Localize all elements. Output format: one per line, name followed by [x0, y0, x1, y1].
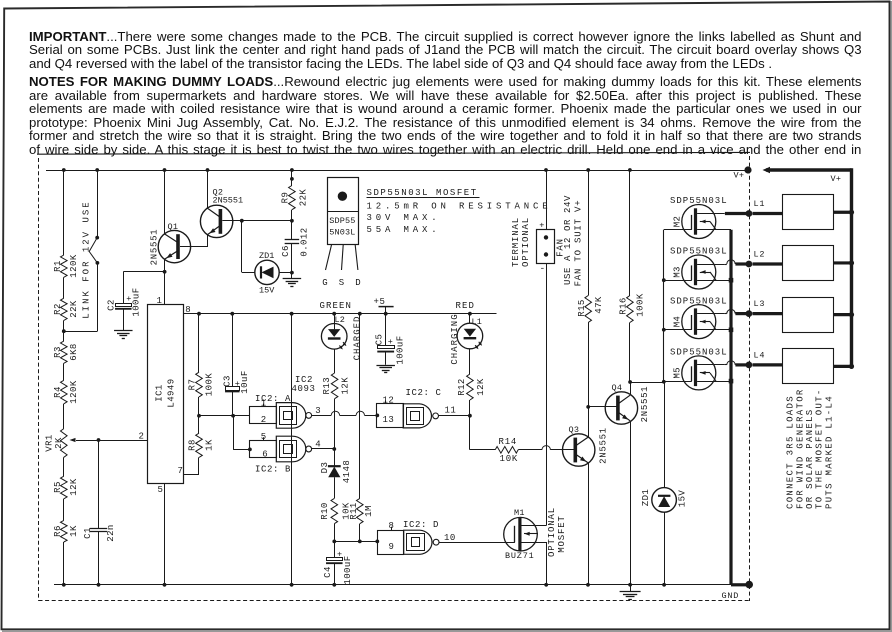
svg-text:R5: R5	[53, 481, 63, 493]
svg-text:1M: 1M	[364, 505, 374, 517]
resistor R16 100K	[627, 296, 634, 323]
wire ZD1 cathode	[279, 272, 292, 274]
wire IC1 pin 5 to ground rail	[164, 483, 166, 585]
wire C2 to ground	[123, 309, 125, 331]
wire VR1-R5	[63, 457, 65, 476]
svg-text:100K: 100K	[636, 293, 646, 317]
svg-text:IC2: D: IC2: D	[403, 520, 439, 530]
svg-text:10K: 10K	[342, 502, 352, 520]
wire R12 to pin11 node	[469, 400, 471, 416]
svg-text:M3: M3	[672, 266, 682, 277]
wire M4 drain to load tap	[727, 309, 735, 313]
svg-text:R2: R2	[53, 303, 63, 315]
wire C5 to ground	[385, 352, 387, 365]
wire C3 top	[232, 314, 234, 387]
svg-text:R10: R10	[320, 502, 330, 520]
svg-text:CHARGING: CHARGING	[450, 313, 460, 364]
svg-text:C3: C3	[223, 375, 233, 387]
page shadow bottom	[2, 630, 892, 632]
wire link top	[97, 170, 99, 238]
svg-text:+5: +5	[374, 297, 386, 307]
wire R11 bottom	[359, 524, 361, 542]
svg-text:PUTS MARKED L1-L4: PUTS MARKED L1-L4	[824, 395, 834, 509]
svg-text:FAN TO SUIT V+: FAN TO SUIT V+	[574, 200, 584, 287]
svg-text:R12: R12	[457, 378, 467, 396]
wire R16 top	[629, 170, 631, 296]
zener diode ZD1 15V	[255, 260, 279, 284]
svg-text:R14: R14	[499, 437, 518, 447]
svg-text:12: 12	[383, 396, 395, 406]
wire R4-VR1	[63, 404, 65, 429]
svg-text:L2: L2	[335, 315, 346, 325]
svg-text:2N5551: 2N5551	[599, 427, 609, 464]
svg-text:TERMINAL: TERMINAL	[511, 217, 521, 267]
svg-text:+: +	[388, 337, 393, 347]
svg-text:L3: L3	[754, 299, 766, 309]
svg-text:2N5551: 2N5551	[213, 196, 244, 206]
svg-text:TO THE MOSFET OUT-: TO THE MOSFET OUT-	[815, 388, 825, 509]
transistor M2 SDP55N03L	[682, 205, 716, 239]
wire R11 top	[359, 314, 361, 499]
svg-text:12K: 12K	[341, 377, 351, 395]
capacitor C5 100uF	[378, 346, 395, 349]
svg-text:Q1: Q1	[168, 222, 179, 232]
svg-text:IC1: IC1	[155, 384, 165, 402]
svg-text:3: 3	[315, 406, 321, 416]
svg-text:GREEN: GREEN	[320, 301, 353, 311]
gate IC2: A	[250, 407, 277, 424]
wire C3 bottom	[232, 391, 234, 415]
node GND	[745, 581, 753, 589]
svg-text:M2: M2	[672, 216, 682, 227]
capacitor C4 100uF	[327, 558, 343, 561]
page shadow right	[891, 1, 892, 632]
svg-text:1: 1	[157, 296, 163, 306]
svg-text:D: D	[355, 278, 361, 288]
svg-text:2K: 2K	[54, 437, 64, 449]
capacitor C1	[90, 528, 108, 530]
svg-text:13: 13	[383, 415, 395, 425]
svg-text:120K: 120K	[69, 380, 79, 404]
transistor M1 BUZ71 optional mosfet	[504, 517, 538, 551]
svg-text:22K: 22K	[299, 189, 309, 207]
wire Q3 base	[551, 449, 575, 451]
resistor R4	[61, 380, 68, 404]
svg-text:12.5mR ON RESISTANCE: 12.5mR ON RESISTANCE	[367, 202, 552, 212]
resistor R14 10K	[495, 447, 518, 454]
svg-text:4093: 4093	[292, 384, 316, 394]
svg-text:L4: L4	[754, 350, 766, 360]
svg-text:1K: 1K	[205, 439, 215, 451]
svg-text:R4: R4	[53, 386, 63, 398]
wire gate bus	[663, 230, 665, 381]
gate IC2: C	[377, 404, 404, 428]
wire Q3 emitter to ground rail	[588, 463, 590, 585]
svg-text:SDP55N03L: SDP55N03L	[670, 348, 728, 358]
wire LED L2 cathode to R13	[334, 349, 336, 373]
wire LED L1 anode	[469, 314, 471, 324]
wire M1 source to ground rail	[546, 542, 548, 585]
wire IC2:C pin11 output	[439, 415, 470, 417]
svg-text:FOR WIND GENERATOR: FOR WIND GENERATOR	[795, 388, 805, 509]
svg-text:5: 5	[158, 485, 164, 495]
svg-text:C2: C2	[107, 299, 117, 311]
op-amp IC1 L4949 body	[148, 305, 184, 484]
svg-text:10uF: 10uF	[240, 370, 250, 393]
svg-text:V+: V+	[831, 174, 842, 184]
wire source bus to GND terminal	[731, 583, 746, 586]
resistor R2	[61, 298, 68, 320]
svg-text:D3: D3	[320, 462, 330, 474]
wire Q2 base	[222, 220, 292, 222]
svg-text:L2: L2	[754, 249, 766, 259]
wire M4 gate	[664, 329, 692, 331]
capacitor C6	[285, 239, 300, 241]
svg-text:G: G	[322, 278, 328, 288]
svg-text:IC2: B: IC2: B	[255, 465, 291, 475]
svg-text:L1: L1	[472, 317, 483, 327]
svg-text:30V MAX.: 30V MAX.	[367, 213, 441, 223]
wire R10 to IC2:D input node	[334, 524, 336, 542]
svg-text:55A MAX.: 55A MAX.	[367, 225, 441, 235]
wire C1 to ground rail	[98, 532, 100, 585]
wire Q1 collector	[164, 170, 166, 234]
schematic dashed border bottom	[39, 600, 750, 602]
svg-text:R13: R13	[322, 377, 332, 395]
terminal FAN optional	[537, 230, 555, 264]
potentiometer VR1	[61, 429, 68, 458]
wire link bottom	[97, 263, 99, 331]
svg-text:USE A 12 OR 24V: USE A 12 OR 24V	[563, 195, 573, 285]
wire R1-R2	[63, 277, 65, 298]
wire R15 to Q3 collector node	[588, 323, 590, 407]
wire ZD1 bottom to ground rail	[664, 512, 666, 585]
wire source bus thick	[729, 230, 732, 585]
wire R2-R3 junction	[63, 320, 65, 341]
svg-text:7: 7	[178, 466, 184, 476]
svg-text:R6: R6	[53, 525, 63, 537]
wire R15 top	[588, 170, 590, 296]
svg-text:12K: 12K	[69, 478, 79, 496]
wire Q1 emitter	[164, 259, 166, 272]
svg-text:R15: R15	[577, 299, 587, 317]
svg-text:22K: 22K	[69, 300, 79, 318]
wire Q4 collector	[630, 382, 632, 395]
wire LED L1 cathode to R12	[469, 349, 471, 374]
svg-text:VR1: VR1	[45, 434, 55, 452]
svg-text:C4: C4	[323, 566, 333, 578]
svg-text:CHARGED: CHARGED	[353, 316, 363, 361]
svg-text:SDP55: SDP55	[329, 216, 355, 226]
svg-text:47K: 47K	[594, 296, 604, 314]
load L3 dummy load box	[753, 312, 783, 315]
wire IC2:A pin3 to IC2:C input with hops	[312, 415, 332, 417]
svg-text:4148: 4148	[342, 460, 352, 483]
gate IC2: B	[250, 441, 277, 458]
svg-text:SDP55N03L: SDP55N03L	[670, 196, 728, 206]
svg-text:M4: M4	[672, 316, 682, 327]
svg-text:-: -	[540, 263, 546, 274]
resistor R7	[196, 372, 203, 397]
transistor M5 SDP55N03L	[682, 356, 716, 390]
resistor R5	[61, 476, 68, 499]
svg-text:1K: 1K	[69, 525, 79, 537]
wire pin11 node down	[469, 416, 471, 450]
wire M3 gate	[664, 280, 692, 282]
svg-text:L1: L1	[754, 199, 766, 209]
node V+	[744, 166, 751, 173]
wire R14 right with hop over fan wire	[518, 449, 542, 451]
transistor Q2 2N5551	[200, 205, 232, 237]
svg-text:OPTIONAL: OPTIONAL	[521, 217, 531, 267]
load L2 dummy load box	[753, 262, 783, 265]
svg-text:R1: R1	[53, 260, 63, 272]
wire Q1 emitter to C2	[123, 271, 164, 273]
svg-text:C1: C1	[83, 527, 93, 539]
svg-text:6: 6	[262, 449, 268, 459]
transistor Q4 2N5551	[605, 392, 637, 424]
gate IC2: D	[378, 531, 404, 555]
svg-text:ZD1: ZD1	[259, 251, 274, 261]
wiper arrow VR1	[76, 440, 99, 442]
wire IC1 pin 8 +5 rail	[184, 313, 497, 315]
wire right V+ rail thick	[850, 168, 853, 365]
svg-text:120K: 120K	[69, 254, 79, 278]
wire M2 drain to load tap	[725, 212, 746, 215]
wire V+ feed thick	[766, 168, 852, 171]
resistor R3	[61, 341, 68, 363]
transistor M3 SDP55N03L	[682, 255, 716, 289]
svg-text:100uF: 100uF	[396, 335, 406, 364]
load L1 dummy load box	[753, 212, 783, 215]
wire top V+ line	[37, 152, 750, 154]
wire C6 to ground node	[291, 244, 293, 278]
wire R5-R6	[63, 499, 65, 521]
svg-text:S: S	[339, 278, 345, 288]
TO-220 package drawing SDP55N03L	[328, 178, 359, 245]
svg-text:M5: M5	[672, 367, 682, 378]
svg-text:C6: C6	[281, 245, 291, 257]
resistor R13 12K	[331, 373, 338, 399]
svg-text:12K: 12K	[476, 378, 486, 396]
svg-text:GND: GND	[722, 591, 740, 601]
svg-text:IC2: C: IC2: C	[406, 388, 442, 398]
wire C1 top	[98, 440, 100, 528]
schematic dashed border left	[38, 158, 40, 601]
resistor R1	[61, 255, 68, 277]
wire FAN - to M1 drain	[546, 263, 548, 525]
wire D3 to R10	[334, 477, 336, 498]
ground under C2	[114, 330, 133, 332]
svg-text:R8: R8	[188, 439, 198, 451]
svg-text:V+: V+	[734, 171, 745, 181]
svg-text:OPTIONAL: OPTIONAL	[547, 507, 557, 557]
svg-text:L4949: L4949	[167, 378, 177, 407]
wire R8 top	[198, 416, 200, 433]
wire IC2 supply line	[291, 314, 293, 585]
svg-text:100K: 100K	[205, 373, 215, 397]
wire V+ rail	[46, 170, 748, 172]
wire ZD1 top	[664, 382, 666, 488]
resistor R9	[289, 186, 296, 210]
LED L1 red CHARGING	[457, 323, 483, 349]
wire ZD1 anode branch	[241, 221, 243, 273]
svg-text:MOSFET: MOSFET	[557, 515, 567, 553]
wire C4 to ground rail	[334, 563, 336, 585]
wire IC2:B pin4 output	[312, 448, 335, 450]
schematic dashed border right	[749, 156, 751, 601]
ground under C6	[283, 278, 302, 280]
svg-text:+: +	[126, 294, 131, 304]
wire LED L2 anode	[334, 314, 336, 330]
wire C4 top	[334, 541, 336, 557]
node +5 tap	[379, 306, 394, 308]
ground under C5	[376, 365, 395, 367]
LED L2 green CHARGED	[321, 324, 347, 350]
svg-text:5N03L: 5N03L	[329, 227, 355, 237]
svg-text:OR SOLAR PANELS: OR SOLAR PANELS	[805, 408, 815, 509]
resistor R6	[61, 520, 68, 542]
capacitor C3 10uF	[226, 387, 240, 391]
svg-text:100uF: 100uF	[132, 287, 142, 316]
svg-text:R3: R3	[53, 346, 63, 358]
diode D3 4148	[334, 449, 336, 466]
wire IC1 pin 7	[184, 474, 200, 476]
resistor R12 12K	[467, 374, 474, 400]
wire R6 to ground rail	[63, 542, 65, 585]
svg-text:R16: R16	[619, 297, 629, 315]
svg-text:15V: 15V	[678, 490, 688, 508]
svg-text:10: 10	[444, 533, 456, 543]
svg-text:2N5551: 2N5551	[150, 229, 160, 266]
wire M2 gate	[664, 229, 692, 231]
wire IC2:D input	[334, 541, 377, 543]
svg-text:RED: RED	[456, 301, 476, 311]
wire Q1 base	[180, 246, 208, 248]
svg-text:9: 9	[389, 542, 395, 552]
svg-text:2N5551: 2N5551	[640, 386, 650, 423]
svg-text:C5: C5	[374, 334, 384, 346]
capacitor C2 100uF	[116, 304, 132, 307]
wire IC2:D pin10 to M1 gate	[439, 542, 515, 544]
svg-text:SDP55N03L: SDP55N03L	[670, 296, 728, 306]
wire Q4 collector to gate bus	[630, 382, 664, 384]
svg-text:+: +	[539, 220, 544, 230]
wire M5 drain to load tap	[727, 361, 735, 365]
svg-text:+: +	[337, 549, 342, 559]
svg-text:BUZ71: BUZ71	[505, 551, 535, 561]
svg-text:0.012: 0.012	[300, 227, 310, 256]
wire C5 top	[385, 314, 387, 346]
wire R7 top	[198, 314, 200, 373]
ground symbol at rail	[630, 585, 632, 592]
link J1 LINK FOR 12V USE	[95, 236, 99, 240]
wire VR1 wiper to IC1 pin 2	[99, 440, 148, 442]
transistor M4 SDP55N03L	[682, 305, 716, 339]
svg-text:11: 11	[445, 406, 457, 416]
svg-text:R9: R9	[281, 192, 291, 204]
wire Q3 collector	[588, 407, 590, 437]
svg-text:SDP55N03L: SDP55N03L	[670, 247, 728, 257]
resistor R8	[196, 433, 203, 457]
svg-text:ZD1: ZD1	[641, 489, 651, 507]
svg-text:22n: 22n	[106, 524, 116, 542]
svg-text:M1: M1	[514, 508, 525, 518]
wire R14 left	[470, 449, 495, 451]
wire R9 to Q2 base node	[291, 210, 293, 240]
wire Q2 collector	[207, 170, 209, 208]
svg-text:CONNECT 3R5 LOADS: CONNECT 3R5 LOADS	[786, 395, 796, 509]
svg-text:LINK FOR 12V USE: LINK FOR 12V USE	[82, 200, 92, 318]
load L4 dummy load box	[753, 363, 783, 366]
svg-text:2: 2	[261, 415, 267, 425]
wire ground rail	[54, 584, 731, 586]
wire node A to IC2:B input	[233, 416, 235, 450]
svg-text:Q4: Q4	[612, 383, 623, 393]
svg-text:15V: 15V	[259, 286, 275, 296]
wire R3-R4	[63, 363, 65, 380]
wire Q1 emitter to IC1 pin 1	[164, 272, 166, 305]
svg-text:SDP55N03L MOSFET: SDP55N03L MOSFET	[367, 188, 478, 198]
wire Q4 emitter to ground rail	[630, 421, 632, 585]
wire M3 drain to load tap	[727, 260, 735, 264]
svg-text:10K: 10K	[500, 454, 519, 464]
resistor R10 10K	[331, 498, 338, 523]
transistor Q1 2N5551	[158, 230, 190, 262]
transistor Q3 2N5551	[563, 434, 595, 466]
svg-text:2: 2	[139, 432, 145, 442]
wire M5 gate	[664, 381, 692, 383]
wire R7 bottom to node A	[198, 397, 200, 416]
svg-text:6K8: 6K8	[69, 343, 79, 361]
wire R13 to pin4 node	[334, 399, 336, 449]
svg-text:R7: R7	[188, 379, 198, 391]
svg-text:Q3: Q3	[569, 425, 580, 435]
wire R16 to Q4 collector node	[629, 323, 631, 383]
svg-text:100uF: 100uF	[343, 555, 353, 584]
resistor R11 1M	[357, 498, 364, 523]
resistor R15 47K	[585, 296, 592, 323]
zener diode ZD1 15V (output clamp)	[652, 488, 677, 513]
wire FAN + to V+ rail	[546, 170, 548, 230]
wire Q2 emitter to Q1 base	[207, 235, 209, 247]
wire Q4 base	[588, 406, 618, 408]
wire R9 top	[291, 170, 293, 186]
wire node A to IC2 inputs	[199, 415, 250, 417]
wire R1 top	[63, 170, 65, 255]
